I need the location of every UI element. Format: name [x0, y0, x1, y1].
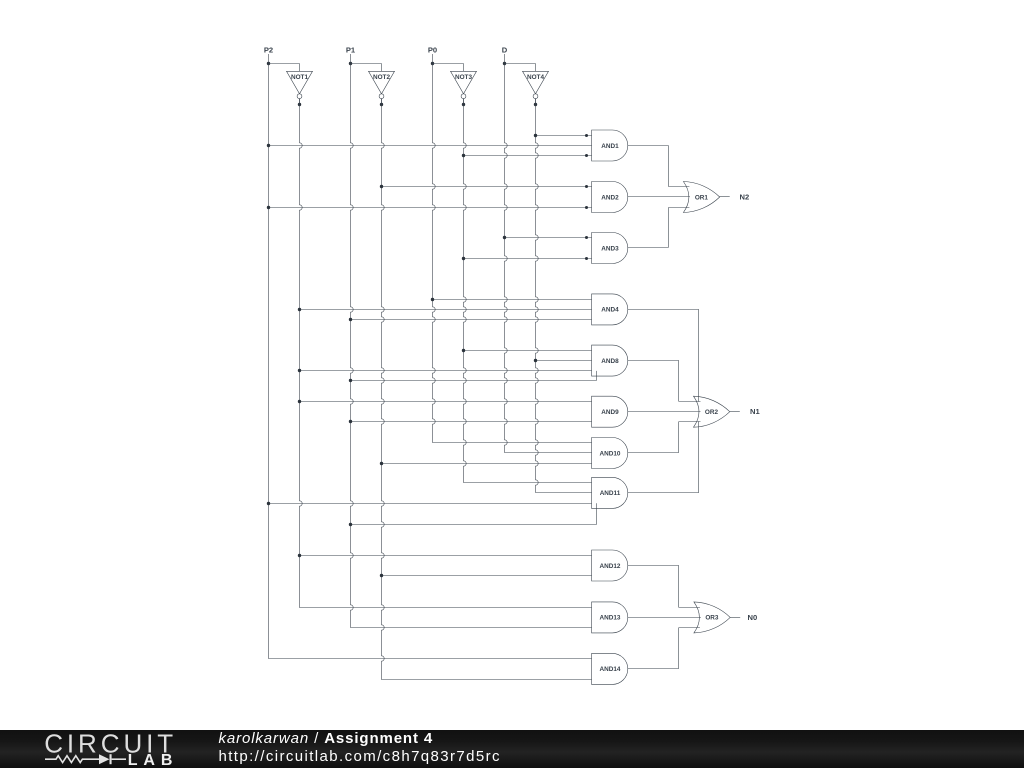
svg-text:D: D: [502, 45, 508, 54]
svg-text:AND3: AND3: [601, 245, 619, 252]
svg-text:OR3: OR3: [705, 615, 719, 622]
svg-text:AND2: AND2: [601, 194, 619, 201]
svg-text:N0: N0: [748, 613, 758, 622]
svg-text:N2: N2: [740, 193, 750, 202]
svg-text:AND1: AND1: [601, 143, 619, 150]
svg-text:AND4: AND4: [601, 307, 619, 314]
svg-text:AND10: AND10: [600, 450, 621, 457]
svg-text:AND14: AND14: [600, 666, 621, 673]
svg-text:LAB: LAB: [128, 752, 179, 768]
svg-text:OR2: OR2: [705, 409, 719, 416]
svg-text:P0: P0: [428, 45, 437, 54]
svg-text:P2: P2: [264, 45, 273, 54]
svg-text:AND12: AND12: [600, 563, 621, 570]
svg-text:AND11: AND11: [600, 490, 621, 497]
svg-text:NOT1: NOT1: [291, 74, 308, 81]
svg-text:N1: N1: [750, 407, 760, 416]
svg-text:AND8: AND8: [601, 358, 619, 365]
svg-text:NOT4: NOT4: [527, 74, 544, 81]
svg-text:NOT3: NOT3: [455, 74, 472, 81]
svg-text:AND9: AND9: [601, 409, 619, 416]
svg-text:OR1: OR1: [695, 194, 709, 201]
svg-text:AND13: AND13: [600, 615, 621, 622]
svg-text:P1: P1: [346, 45, 356, 54]
svg-text:NOT2: NOT2: [373, 74, 390, 81]
